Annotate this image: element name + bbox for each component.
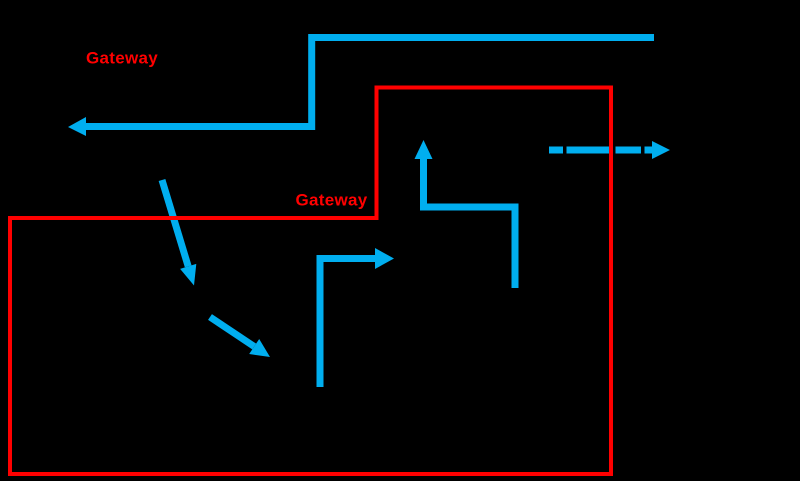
arrowhead A5: [415, 140, 433, 159]
svg-text:Gateway: Gateway: [86, 49, 158, 68]
wire blue arrow A1 (top elbow, points left): [85, 38, 654, 127]
red boundary polygon (two merged gateway zones): [10, 88, 611, 475]
wire blue arrow A4 (elbow up then right): [320, 259, 376, 388]
wire blue arrow A5 (Z elbow, points up): [424, 158, 516, 288]
arrowhead A1: [68, 117, 86, 136]
arrowhead A6: [652, 141, 670, 159]
arrowhead A4: [375, 248, 394, 269]
wire blue diagonal arrow A3 (down-right): [210, 317, 254, 347]
arrowhead A3: [249, 339, 270, 357]
wire blue diagonal arrow A2 (down-steep): [162, 180, 188, 266]
wire blue dashed arrow A6 (points right): [549, 147, 653, 154]
arrowhead A2: [180, 264, 196, 286]
svg-text:Gateway: Gateway: [296, 191, 368, 210]
